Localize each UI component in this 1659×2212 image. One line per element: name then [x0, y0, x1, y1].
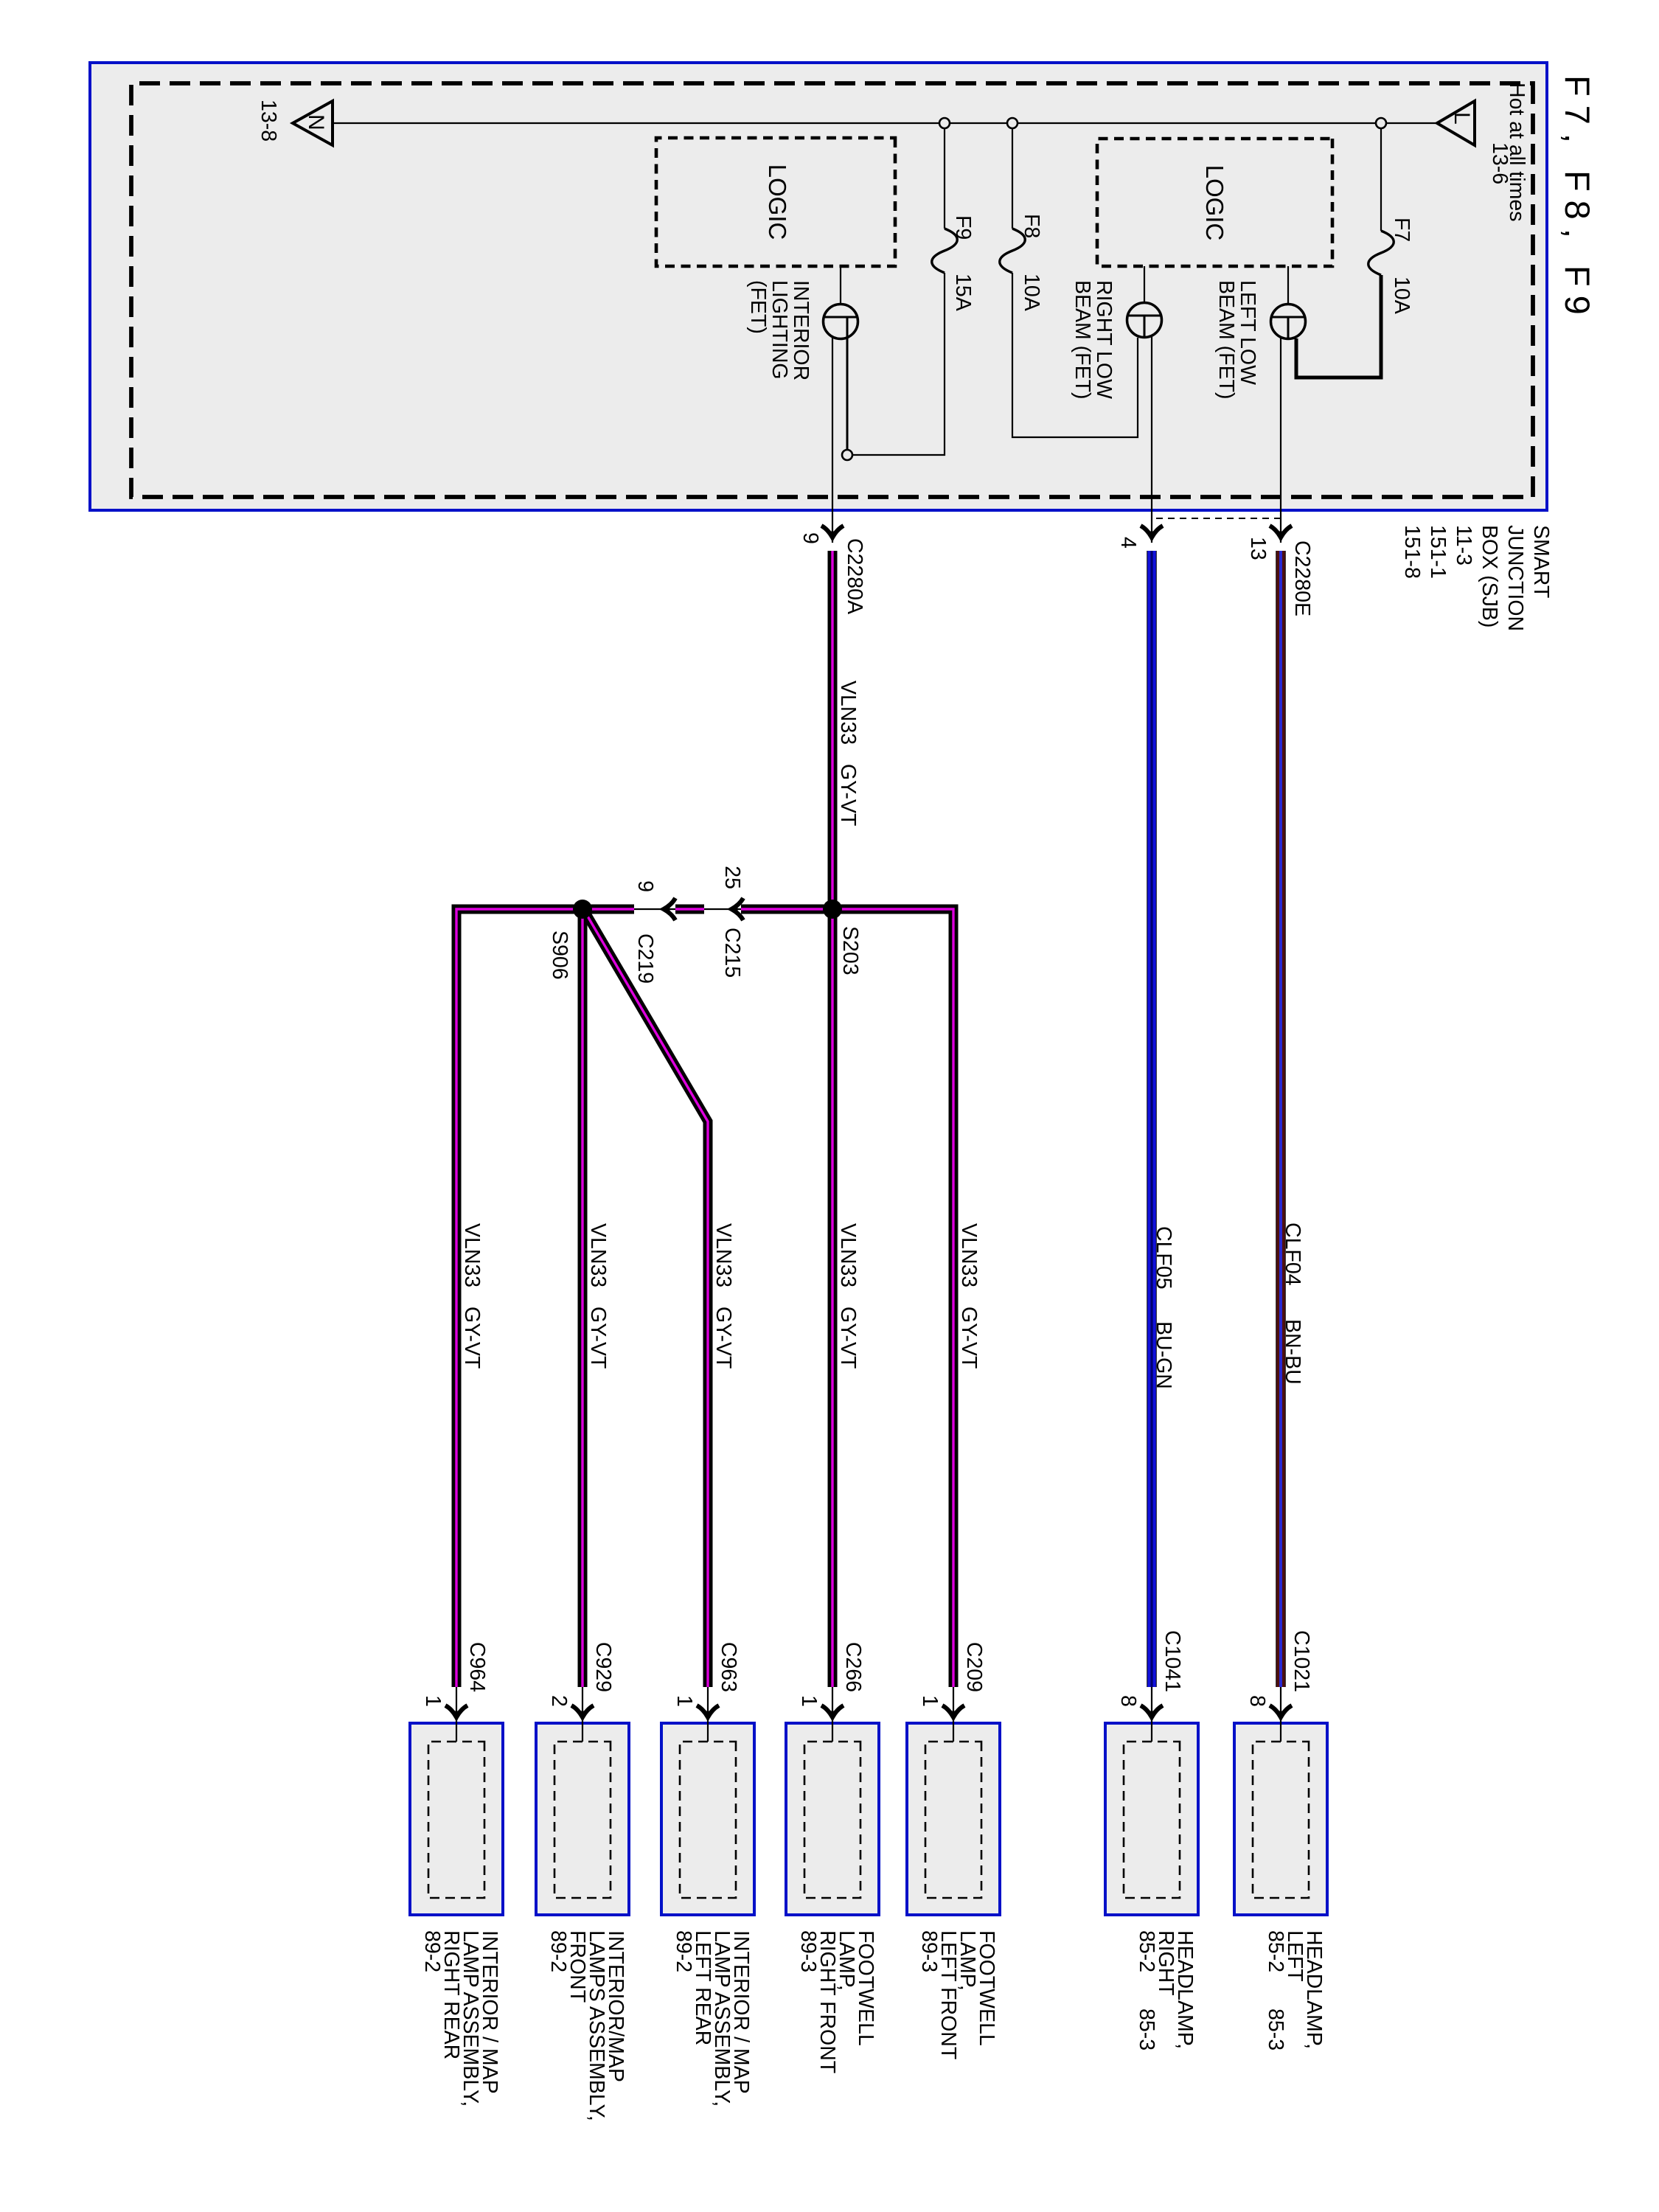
svg-text:BEAM (FET): BEAM (FET): [1214, 280, 1238, 400]
svg-text:15A: 15A: [951, 274, 975, 311]
svg-text:JUNCTION: JUNCTION: [1503, 525, 1527, 631]
svg-text:S906: S906: [548, 931, 571, 980]
svg-text:BN-BU: BN-BU: [1281, 1319, 1304, 1385]
svg-text:89-3: 89-3: [917, 1930, 941, 1972]
svg-text:2: 2: [547, 1695, 571, 1707]
svg-text:GY-VT: GY-VT: [460, 1307, 484, 1368]
svg-text:1: 1: [672, 1695, 696, 1707]
svg-text:VLN33: VLN33: [957, 1223, 981, 1287]
svg-text:L: L: [1450, 112, 1474, 125]
svg-text:GY-VT: GY-VT: [712, 1307, 735, 1368]
svg-text:8: 8: [1116, 1695, 1140, 1707]
svg-text:F8: F8: [1020, 214, 1043, 238]
svg-text:LOGIC: LOGIC: [764, 164, 791, 240]
svg-text:4: 4: [1116, 537, 1140, 549]
svg-text:89-2: 89-2: [672, 1930, 695, 1972]
svg-text:INTERIOR: INTERIOR: [789, 280, 813, 380]
svg-text:1: 1: [421, 1695, 445, 1707]
svg-text:VLN33: VLN33: [836, 681, 860, 745]
svg-text:C2280A: C2280A: [843, 538, 866, 614]
svg-text:LEFT LOW: LEFT LOW: [1236, 280, 1259, 385]
svg-text:85-2: 85-2: [1135, 1930, 1158, 1972]
svg-text:VLN33: VLN33: [836, 1223, 860, 1287]
svg-text:89-3: 89-3: [796, 1930, 820, 1972]
svg-text:151-1: 151-1: [1426, 525, 1450, 579]
svg-text:LIGHTING: LIGHTING: [768, 280, 791, 380]
svg-text:8: 8: [1245, 1695, 1269, 1707]
svg-text:GY-VT: GY-VT: [586, 1307, 610, 1368]
svg-text:13: 13: [1246, 537, 1270, 560]
svg-text:1: 1: [918, 1695, 942, 1707]
svg-text:9: 9: [799, 532, 822, 544]
svg-text:C963: C963: [717, 1642, 740, 1692]
svg-text:C266: C266: [841, 1642, 865, 1692]
svg-text:C964: C964: [465, 1642, 489, 1692]
svg-text:C2280E: C2280E: [1290, 540, 1314, 616]
svg-text:(FET): (FET): [746, 280, 770, 334]
svg-text:1: 1: [797, 1695, 821, 1707]
svg-text:11-3: 11-3: [1452, 525, 1475, 566]
svg-text:BOX (SJB): BOX (SJB): [1478, 525, 1501, 627]
svg-text:N: N: [304, 114, 328, 131]
svg-text:85-2: 85-2: [1264, 1930, 1287, 1972]
svg-text:S203: S203: [838, 926, 862, 975]
svg-text:C1021: C1021: [1290, 1630, 1313, 1692]
svg-text:F7, F8, F9: F7, F8, F9: [1558, 75, 1597, 324]
svg-text:C209: C209: [962, 1642, 986, 1692]
svg-text:BU-GN: BU-GN: [1152, 1321, 1175, 1389]
svg-text:C215: C215: [720, 928, 744, 978]
svg-text:GY-VT: GY-VT: [836, 764, 860, 826]
svg-text:89-2: 89-2: [420, 1930, 444, 1972]
svg-text:RIGHT LOW: RIGHT LOW: [1092, 280, 1116, 399]
svg-text:9: 9: [633, 880, 657, 892]
svg-text:GY-VT: GY-VT: [957, 1307, 981, 1368]
svg-text:13-6: 13-6: [1488, 142, 1512, 184]
svg-text:F9: F9: [951, 215, 975, 240]
svg-text:CLF04: CLF04: [1281, 1222, 1304, 1286]
svg-text:85-3: 85-3: [1135, 2008, 1158, 2051]
svg-text:25: 25: [720, 866, 744, 889]
svg-text:C1041: C1041: [1161, 1630, 1184, 1692]
svg-text:151-8: 151-8: [1400, 525, 1424, 579]
svg-text:SMART: SMART: [1529, 525, 1553, 598]
svg-text:C929: C929: [591, 1642, 615, 1692]
svg-text:VLN33: VLN33: [460, 1223, 484, 1287]
svg-text:13-8: 13-8: [257, 100, 280, 142]
svg-text:85-3: 85-3: [1264, 2008, 1287, 2051]
svg-text:89-2: 89-2: [546, 1930, 570, 1972]
svg-text:10A: 10A: [1390, 276, 1413, 314]
svg-text:LOGIC: LOGIC: [1201, 165, 1228, 241]
svg-text:BEAM (FET): BEAM (FET): [1071, 280, 1094, 400]
svg-text:CLF05: CLF05: [1152, 1226, 1175, 1290]
svg-text:VLN33: VLN33: [712, 1223, 735, 1287]
svg-text:VLN33: VLN33: [586, 1223, 610, 1287]
svg-text:GY-VT: GY-VT: [836, 1307, 860, 1368]
svg-text:10A: 10A: [1020, 274, 1043, 311]
svg-text:C219: C219: [633, 933, 657, 984]
svg-text:F7: F7: [1390, 218, 1413, 242]
